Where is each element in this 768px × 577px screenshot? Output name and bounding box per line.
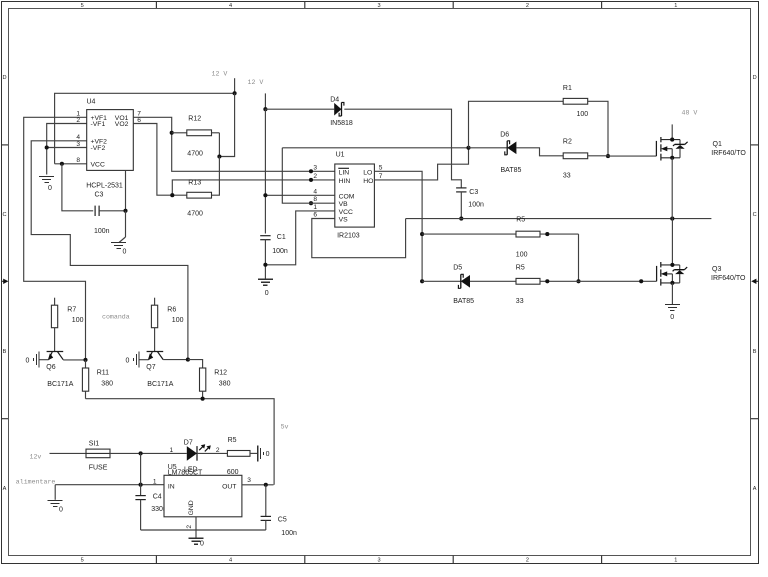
svg-text:5v: 5v	[281, 423, 289, 430]
diode D6	[505, 141, 517, 155]
wire C3 left	[62, 164, 93, 211]
wire +VF2 pin4 to comanda Q7	[31, 141, 188, 360]
svg-text:alimentare: alimentare	[16, 478, 56, 485]
svg-text:VCC: VCC	[339, 209, 353, 216]
svg-text:12v: 12v	[30, 454, 42, 461]
svg-text:BAT85: BAT85	[501, 167, 522, 174]
svg-text:100: 100	[172, 317, 184, 324]
frame row tick arrow right	[756, 280, 759, 282]
svg-text:C3: C3	[95, 192, 104, 199]
wire Q6 emitter to ground	[39, 359, 49, 361]
wire 12v down to IN	[140, 453, 142, 484]
resistor R12 380	[188, 360, 203, 368]
wire fuse to D7	[110, 452, 187, 454]
svg-text:R5: R5	[516, 265, 525, 272]
diode D5	[458, 274, 470, 288]
resistor R12	[172, 132, 187, 134]
ground 0 at U4 inputs	[39, 177, 54, 193]
svg-text:D: D	[753, 75, 757, 81]
ground 0 at Q6 emitter	[26, 352, 40, 368]
svg-text:5: 5	[81, 3, 84, 9]
svg-text:D5: D5	[453, 265, 462, 272]
ground 0 alimentare	[48, 500, 63, 513]
svg-text:1: 1	[674, 3, 677, 9]
svg-text:VO2: VO2	[115, 121, 129, 128]
svg-text:C3: C3	[469, 189, 478, 196]
wire HIN branch	[172, 180, 334, 195]
frame row tick left	[1, 418, 8, 420]
svg-text:0: 0	[26, 357, 30, 364]
svg-text:Q7: Q7	[146, 364, 155, 371]
junction Q3 drain	[670, 263, 674, 267]
frame column tick top	[304, 1, 306, 8]
ground 0 below C3	[111, 243, 126, 256]
wire HO pin7 jog up	[374, 148, 468, 180]
junction Q1 drain	[670, 138, 674, 142]
wire D7 to R5 600	[197, 452, 227, 454]
svg-text:VCC: VCC	[91, 162, 105, 169]
svg-text:1: 1	[153, 479, 157, 486]
svg-text:C: C	[2, 212, 6, 218]
junction 12v/U5 IN	[139, 451, 143, 455]
wire VO1 to R12/LIN	[133, 117, 334, 171]
svg-text:100: 100	[72, 317, 84, 324]
wire U4 VCC to 12V rail	[55, 93, 235, 164]
svg-text:1: 1	[674, 557, 677, 563]
svg-text:LO: LO	[363, 169, 372, 176]
junction OUT/C5	[264, 483, 268, 487]
wire R5(100) right	[540, 233, 579, 235]
frame column tick bottom	[452, 556, 454, 564]
svg-text:100n: 100n	[272, 248, 288, 255]
svg-text:R5: R5	[228, 437, 237, 444]
wire D6 anode to R2	[516, 148, 563, 156]
junction Q6 collector/R11	[83, 358, 87, 362]
svg-text:0: 0	[200, 541, 204, 548]
junction Q7 collector/R12	[186, 358, 190, 362]
svg-text:U1: U1	[336, 152, 345, 159]
frame row tick right	[751, 144, 759, 146]
svg-text:R2: R2	[563, 138, 572, 145]
svg-text:COM: COM	[339, 193, 355, 200]
svg-text:C1: C1	[277, 234, 286, 241]
svg-text:100n: 100n	[281, 530, 297, 537]
wire R1 left	[469, 101, 564, 148]
wire +VF1 pin1 to comanda Q6	[24, 117, 87, 360]
junction VCC/C3	[60, 162, 64, 166]
ground 0 below C1	[258, 279, 273, 297]
wire VCC pin8	[55, 163, 87, 165]
capacitor C5	[265, 485, 267, 517]
svg-text:R13: R13	[188, 180, 201, 187]
svg-text:2: 2	[186, 525, 193, 529]
svg-text:FUSE: FUSE	[89, 465, 108, 472]
svg-text:4: 4	[229, 557, 232, 563]
svg-text:5: 5	[81, 557, 84, 563]
svg-text:Q3: Q3	[712, 266, 721, 273]
svg-text:R11: R11	[97, 370, 109, 377]
junction R5s merge	[576, 279, 580, 283]
ground 0 right of R5	[258, 445, 270, 461]
svg-text:Q1: Q1	[713, 141, 722, 148]
svg-text:B: B	[3, 349, 7, 355]
svg-text:R5: R5	[516, 216, 525, 223]
capacitor C3 bootstrap	[456, 188, 466, 192]
svg-text:5: 5	[379, 164, 383, 171]
svg-text:33: 33	[516, 298, 524, 305]
svg-text:HO: HO	[363, 178, 373, 185]
svg-text:R12: R12	[188, 116, 201, 123]
junction VS/Q1 source	[670, 217, 674, 221]
svg-text:D7: D7	[184, 440, 193, 447]
resistor R13	[187, 192, 212, 198]
svg-text:48 V: 48 V	[682, 110, 698, 117]
wire 12V to D4	[265, 108, 334, 110]
resistor R2	[563, 153, 588, 159]
wire OUT pin3	[242, 484, 274, 486]
svg-text:3: 3	[247, 477, 251, 484]
svg-text:BAT85: BAT85	[453, 298, 474, 305]
svg-text:0: 0	[48, 185, 52, 192]
svg-text:R7: R7	[67, 306, 76, 313]
svg-text:IRF640/TO: IRF640/TO	[711, 275, 746, 282]
LED D7	[187, 444, 211, 461]
svg-text:380: 380	[101, 380, 113, 387]
junction VB/HO/R1/D6	[466, 146, 470, 150]
svg-text:SI1: SI1	[89, 441, 100, 448]
junction -VF1/-VF2	[45, 145, 49, 149]
svg-text:-VF1: -VF1	[91, 121, 106, 128]
wire C1 bottom to ground	[264, 240, 266, 279]
svg-text:R6: R6	[167, 306, 176, 313]
svg-text:8: 8	[76, 157, 80, 164]
capacitor C3	[95, 206, 99, 216]
svg-text:380: 380	[219, 380, 231, 387]
wire 12V rail down past COM to C1	[264, 109, 266, 233]
resistor R5 33	[516, 278, 540, 284]
wire COM pin4	[265, 194, 334, 196]
wire 12v input	[50, 452, 87, 454]
supply 12V #1 stub	[234, 78, 236, 93]
transistor Q6	[47, 352, 64, 361]
svg-text:C4: C4	[153, 494, 162, 501]
svg-text:HCPL-2531: HCPL-2531	[86, 182, 123, 189]
junction 12V/D4	[263, 107, 267, 111]
svg-text:4700: 4700	[187, 151, 203, 158]
svg-text:0: 0	[123, 249, 127, 256]
op-amp U4 box	[87, 110, 134, 171]
junction C3/VS wire	[459, 217, 463, 221]
wire C3 right / U4 bottom	[125, 170, 127, 210]
frame column tick bottom	[155, 556, 157, 564]
svg-text:100: 100	[577, 111, 589, 118]
svg-text:0: 0	[59, 507, 63, 514]
svg-text:LM7805CT: LM7805CT	[168, 470, 203, 477]
wire Q7 collector	[163, 359, 188, 361]
svg-text:D6: D6	[500, 131, 509, 138]
fuse SI1	[86, 449, 110, 458]
svg-text:R12: R12	[214, 370, 227, 377]
resistor R5 100	[516, 231, 540, 237]
wire VO2 to R13/HIN	[133, 124, 187, 196]
resistor R6	[154, 298, 156, 306]
svg-text:6: 6	[137, 117, 141, 124]
frame column tick bottom	[601, 556, 603, 564]
wire alimentare to U5 IN	[55, 484, 164, 486]
junction IN/C4	[139, 483, 143, 487]
svg-text:comanda: comanda	[102, 313, 130, 320]
svg-text:4: 4	[229, 3, 232, 9]
junction LO/gate wire	[420, 279, 424, 283]
junction R1/R2/gate Q1	[606, 154, 610, 158]
svg-text:0: 0	[265, 290, 269, 297]
wire to D6 cathode	[469, 147, 508, 149]
wire R5 to ground right	[250, 452, 258, 454]
supply 12V #2 stub	[264, 93, 266, 109]
svg-text:-VF2: -VF2	[91, 145, 106, 152]
svg-text:2: 2	[526, 557, 529, 563]
svg-text:GND: GND	[188, 500, 195, 515]
svg-text:2: 2	[526, 3, 529, 9]
junction R12 left	[170, 131, 174, 135]
junction C1/VCC/ground	[263, 263, 267, 267]
junction HIN pin	[309, 178, 313, 182]
frame column tick top	[601, 1, 603, 8]
frame column tick top	[452, 1, 454, 8]
junction LIN pin	[309, 169, 313, 173]
junction Q3 gate pin	[639, 279, 643, 283]
svg-text:3: 3	[377, 3, 380, 9]
svg-text:A: A	[3, 486, 7, 492]
svg-text:IRF640/TO: IRF640/TO	[711, 150, 746, 157]
resistor R11	[85, 360, 87, 368]
svg-text:8: 8	[313, 196, 317, 203]
wire R5(33) to Q3 gate	[540, 280, 657, 282]
svg-text:3: 3	[377, 557, 380, 563]
svg-text:6: 6	[313, 212, 317, 219]
wire Q7 emitter to ground	[139, 359, 149, 361]
svg-text:7: 7	[379, 173, 383, 180]
wire R5 branch down	[578, 234, 580, 281]
svg-text:0: 0	[670, 314, 674, 321]
transistor Q1	[656, 124, 687, 160]
junction R13 left/HIN	[170, 193, 174, 197]
junction R5 33 right	[545, 279, 549, 283]
wire -VF1 pin2	[47, 124, 87, 148]
IC U5 regulator box	[164, 475, 242, 517]
capacitor C4	[140, 485, 142, 496]
svg-text:IN: IN	[168, 483, 175, 490]
frame row tick left	[1, 144, 8, 146]
wire Q6 collector	[63, 359, 85, 361]
wire U5 GND pin	[195, 517, 197, 538]
wire VB long to HO node	[282, 147, 468, 149]
svg-text:33: 33	[563, 173, 571, 180]
wire VCC pin1 to C1 bottom	[265, 211, 334, 265]
junction Q3 source	[670, 281, 674, 285]
svg-text:100n: 100n	[468, 202, 484, 209]
wire Q3 drain from VS	[671, 219, 673, 265]
wire 12V to R12/R13	[219, 93, 234, 156]
wire alimentare ground stub	[54, 485, 56, 500]
wire VB pin8	[282, 148, 335, 203]
resistor R5 600	[227, 451, 250, 457]
wire VS node	[406, 218, 712, 220]
wire ground rail C4/GND/C5	[141, 529, 266, 531]
wire to ground below C3	[125, 211, 127, 237]
svg-text:4: 4	[313, 188, 317, 195]
svg-text:D4: D4	[330, 97, 339, 104]
svg-text:100n: 100n	[94, 228, 110, 235]
svg-text:4700: 4700	[187, 211, 203, 218]
wire LO to D5	[422, 280, 461, 282]
U1 LIN overline	[338, 167, 349, 169]
svg-text:Q6: Q6	[46, 364, 55, 371]
svg-text:BC171A: BC171A	[47, 381, 73, 388]
wire R2 to Q1 gate	[588, 155, 608, 157]
svg-text:3: 3	[313, 164, 317, 171]
svg-text:A: A	[753, 486, 757, 492]
wire -VF2 pin3 to ground	[47, 148, 87, 175]
frame row tick right	[751, 418, 759, 420]
svg-text:C5: C5	[278, 516, 287, 523]
wire D5 anode to R5(33)	[470, 280, 516, 282]
transistor Q7	[147, 352, 164, 361]
svg-text:U4: U4	[87, 99, 96, 106]
svg-text:VB: VB	[339, 201, 349, 208]
junction R5 100 right	[545, 232, 549, 236]
svg-text:2: 2	[313, 173, 317, 180]
ground 0 below Q3	[665, 305, 680, 321]
capacitor C1	[260, 236, 270, 240]
svg-text:12 V: 12 V	[248, 79, 264, 86]
svg-text:IN5818: IN5818	[330, 120, 353, 127]
svg-text:IR2103: IR2103	[337, 233, 360, 240]
IC U1 box	[335, 164, 375, 227]
diode D4	[334, 102, 344, 116]
svg-text:1: 1	[313, 204, 317, 211]
svg-text:1: 1	[170, 447, 174, 454]
svg-text:HIN: HIN	[339, 178, 351, 185]
wire Q1 source to VS	[671, 158, 673, 219]
wire R5(100) left	[422, 233, 516, 235]
ground 0 below U5	[189, 538, 205, 547]
junction 12V rail/U4 VCC	[233, 91, 237, 95]
svg-text:3: 3	[76, 141, 80, 148]
svg-text:2: 2	[76, 117, 80, 124]
frame row tick arrow left	[1, 280, 4, 282]
wire D4 cathode to bootstrap cap	[344, 109, 461, 188]
resistor R7	[54, 298, 56, 306]
svg-text:C: C	[753, 212, 757, 218]
svg-text:0: 0	[266, 451, 270, 458]
junction COM/12V rail	[263, 193, 267, 197]
ground 0 at Q7 emitter	[126, 352, 140, 368]
svg-text:D: D	[2, 75, 6, 81]
junction R12/5v rail	[201, 397, 205, 401]
frame column tick top	[155, 1, 157, 8]
junction VB pin	[309, 201, 313, 205]
svg-text:R1: R1	[563, 85, 572, 92]
junction Q1 source	[670, 156, 674, 160]
transistor Q3	[657, 262, 688, 286]
wire LO pin5 down to low side gate	[374, 171, 422, 281]
svg-text:12 V: 12 V	[212, 71, 228, 78]
svg-text:LIN: LIN	[339, 169, 350, 176]
svg-text:VS: VS	[339, 217, 349, 224]
junction C3/U4	[123, 209, 127, 213]
svg-text:100: 100	[516, 252, 528, 259]
svg-text:OUT: OUT	[222, 483, 236, 490]
junction LO/R5 branch	[420, 232, 424, 236]
svg-text:B: B	[753, 349, 757, 355]
wire 5v rail	[86, 399, 275, 485]
wire VS pin6 loop	[312, 219, 406, 258]
junction R12/R13 to 12V	[217, 154, 221, 158]
wire C3 bootstrap bottom to VS	[460, 192, 462, 219]
svg-text:BC171A: BC171A	[147, 381, 173, 388]
frame column tick bottom	[304, 556, 306, 564]
resistor R1	[563, 98, 588, 104]
svg-text:0: 0	[126, 357, 130, 364]
wire Q3 source to ground	[671, 283, 673, 304]
wire R1 right down to gate node	[588, 101, 608, 156]
